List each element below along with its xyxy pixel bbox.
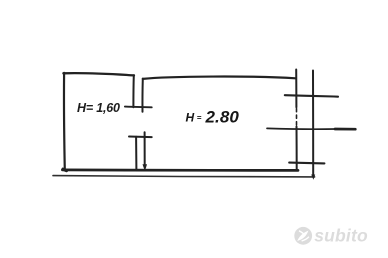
svg-text:=: = bbox=[197, 113, 202, 122]
dimension line Vb with arrow bbox=[144, 132, 146, 165]
wall: small room right wall (upper segment) bbox=[132, 75, 134, 107]
arrowhead at bottom of dimension line Vb bbox=[143, 164, 148, 171]
svg-text:subito: subito bbox=[314, 226, 368, 246]
wall: bottom exterior wall bbox=[62, 169, 298, 172]
tick: lintel mark between rooms (lower) bbox=[129, 136, 152, 139]
boundary: lower outer line below bottom wall bbox=[53, 176, 315, 177]
wall: right wall inner line V1 (dashed middle) bbox=[296, 109, 298, 127]
wall: left exterior wall bbox=[63, 73, 66, 170]
svg-text:2.80: 2.80 bbox=[205, 108, 240, 127]
svg-text:H= 1,60: H= 1,60 bbox=[77, 101, 120, 115]
wall: right wall inner line V1 (solid top) bbox=[295, 70, 297, 108]
tick: lintel mark between rooms (upper) bbox=[125, 106, 152, 109]
tick: right wall upper crossing mark bbox=[285, 95, 338, 97]
wall: main room left wall (upper segment) bbox=[141, 79, 143, 112]
corner blob bottom-left bbox=[63, 169, 67, 170]
wall: right wall inner line V1 (solid bottom) bbox=[296, 127, 298, 171]
tick: right wall lower crossing mark bbox=[289, 162, 324, 165]
wall: small room top edge bbox=[63, 73, 134, 75]
watermark: subito logo circle bbox=[294, 226, 368, 246]
boundary: long horizontal line through right wall bbox=[267, 127, 336, 130]
label: H = 2.80 (main room height) bbox=[186, 108, 240, 127]
svg-text:H: H bbox=[186, 110, 195, 124]
label: H= 1,60 (small room height) bbox=[77, 101, 120, 115]
boundary: long horizontal line thick right end bbox=[335, 128, 355, 131]
wall: right wall outer line V2 bbox=[312, 71, 314, 177]
arrow blob at bottom of right wall outer line V2 bbox=[311, 175, 315, 180]
wall: main room top edge bbox=[143, 77, 296, 79]
wall: partition lower segment Va bbox=[135, 137, 137, 170]
